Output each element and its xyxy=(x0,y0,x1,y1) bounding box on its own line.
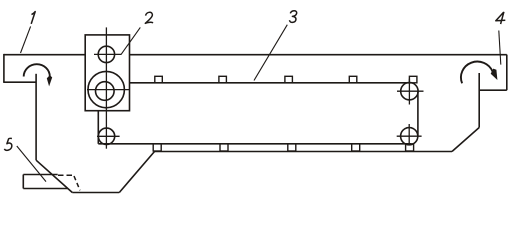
casing left vertical xyxy=(3,54,5,82)
casing inner left vertical xyxy=(35,74,37,160)
label 3 xyxy=(290,11,297,23)
bottom-right pulley v-centerline xyxy=(408,124,410,146)
casing bottom-right line xyxy=(155,151,453,153)
label 4 xyxy=(496,12,506,24)
top scraper square 4 xyxy=(349,76,357,83)
casing left bracket bottom xyxy=(3,81,36,83)
belt bottom line xyxy=(98,143,411,145)
bottom small pulley circle xyxy=(98,128,114,144)
drive block U2 rectangle xyxy=(85,35,129,111)
right rotation arrowhead xyxy=(491,69,498,80)
bottom pulley horizontal centerline xyxy=(97,135,120,137)
casing right vertical xyxy=(506,55,508,91)
casing diagonal up-right xyxy=(119,152,154,193)
discharge tray top edge xyxy=(23,174,57,176)
casing lower-left diagonal xyxy=(36,160,72,192)
leader 4 xyxy=(499,31,501,65)
bottom scraper square 5 xyxy=(406,144,414,151)
big eccentric inner circle xyxy=(96,82,115,101)
leader 3 xyxy=(254,25,287,81)
tray hidden dashed diagonal xyxy=(74,176,80,190)
label 2 xyxy=(145,12,153,23)
casing right diagonal xyxy=(452,128,479,152)
bottom-right pulley h-centerline xyxy=(397,135,422,137)
casing top line left segment xyxy=(4,54,85,56)
bottom-right pulley circle xyxy=(401,128,418,145)
bottom scraper square 2 xyxy=(220,144,228,151)
left rotation arrow arc xyxy=(24,64,50,76)
top-right pulley circle xyxy=(401,83,418,100)
belt left vertical (around bottom pulley) xyxy=(97,111,99,144)
top-right pulley h-centerline xyxy=(397,90,424,92)
right rotation arrow arc xyxy=(461,62,493,84)
bottom scraper square 4 xyxy=(352,144,360,151)
leader 5 xyxy=(17,146,46,182)
top pulley horizontal centerline xyxy=(94,53,121,55)
leader 1 xyxy=(21,26,31,53)
belt right vertical xyxy=(417,92,419,137)
casing right bracket bottom xyxy=(479,89,507,91)
top small pulley circle xyxy=(98,46,114,62)
top scraper square 3 xyxy=(285,76,293,83)
casing right inner vertical xyxy=(478,73,480,128)
bottom scraper square 1 xyxy=(153,144,161,151)
leader 2 xyxy=(121,27,140,54)
bottom scraper square 3 xyxy=(288,144,296,151)
top-right pulley v-centerline xyxy=(408,79,410,105)
left rotation arrowhead xyxy=(47,75,52,86)
vertical centerline of drive xyxy=(105,27,107,148)
tray hidden dashed top xyxy=(58,174,74,176)
top scraper square 1 xyxy=(155,76,163,83)
discharge tray left edge xyxy=(22,175,24,189)
label 5 xyxy=(4,138,12,150)
belt top line xyxy=(129,82,412,84)
discharge tray bottom edge xyxy=(23,188,68,190)
casing top line right segment xyxy=(130,54,507,56)
top scraper square 5 on pulley xyxy=(409,76,417,83)
top scraper square 2 xyxy=(219,76,227,83)
big eccentric outer circle xyxy=(88,71,124,107)
casing bottom line xyxy=(72,192,119,194)
label 1 xyxy=(31,12,35,24)
big circle horizontal centerline xyxy=(87,89,130,91)
